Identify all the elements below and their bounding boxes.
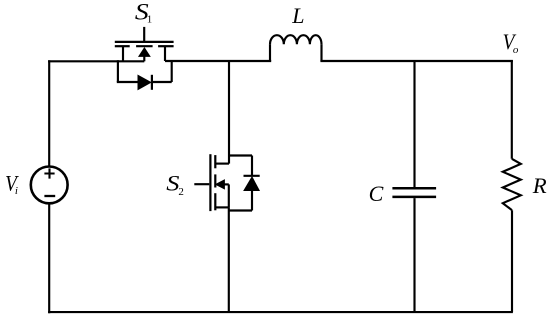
mosfet S2 body-to-source vertical [228, 184, 230, 207]
S1 body diode: right vertical up to drain wire [171, 60, 173, 82]
svg-text:o: o [513, 44, 519, 56]
voltage source Vi circle [31, 167, 68, 204]
wire: left rail upper (Vi top lead) [48, 60, 50, 167]
wire: S2 drain vertical from switch node [228, 60, 230, 163]
voltage source minus sign [44, 195, 55, 197]
mosfet S1 gate lead [143, 27, 145, 42]
wire: bottom ground rail [48, 311, 513, 313]
wire: capacitor C top vertical from output wire [413, 61, 415, 187]
voltage source plus sign [44, 168, 54, 178]
svg-text:C: C [369, 181, 384, 206]
wire: left rail lower (Vi bottom lead to ground rail) [48, 203, 50, 313]
mosfet S2 body arrow tail [224, 183, 229, 185]
mosfet S1 left contact vertical lead [122, 46, 124, 61]
mosfet S2 top (drain) contact wire [215, 163, 229, 165]
wire: right rail lower (resistor R to ground rail) [511, 210, 513, 312]
wire: S2 source vertical down to ground rail [228, 207, 230, 312]
S2 body diode: top horizontal from drain vertical [229, 154, 252, 156]
mosfet S1 body arrow (points up to middle contact) [139, 48, 150, 57]
inductor L left vertical riser [269, 44, 271, 61]
wire: S1 drain to switch node (top wire to inductor) [165, 60, 271, 62]
S1 body diode: cathode bar [151, 75, 153, 90]
mosfet S1 body arrow tail [143, 56, 145, 62]
mosfet S2 gate lead from S2 label [194, 183, 209, 185]
mosfet S1 contact bar: drain segment (left) [115, 45, 130, 47]
resistor R zigzag [503, 159, 521, 210]
S2 body diode: cathode vertical upper segment [251, 156, 253, 176]
inductor L humps (4 arcs) [270, 35, 322, 44]
inductor L right vertical riser [320, 44, 322, 61]
S1 body diode: cathode horizontal wire [152, 81, 172, 83]
capacitor C bottom plate [392, 196, 436, 199]
mosfet S2 bottom (source) contact wire [215, 206, 229, 208]
mosfet S1 contact bar: source segment (right) [158, 45, 174, 47]
S2 body diode: anode vertical lower segment [251, 190, 253, 211]
S2 body diode: triangle (anode, points up) [244, 177, 259, 191]
mosfet S1 gate bar [115, 41, 174, 43]
wire: inductor to output node (top wire right section) [320, 60, 513, 62]
mosfet S1 contact bar: body segment (middle) [136, 45, 153, 47]
wire: right rail upper (output node down to resistor R) [511, 60, 513, 159]
S1 body diode: triangle (anode, points right) [138, 75, 151, 89]
mosfet S1 right contact vertical lead [164, 46, 166, 61]
svg-text:i: i [15, 185, 18, 197]
S1 body diode: anode horizontal wire [117, 81, 138, 83]
wire: capacitor C bottom vertical to ground rail [413, 198, 415, 312]
mosfet S2 contact bar: drain segment (top) [214, 155, 216, 168]
svg-text:R: R [532, 174, 547, 199]
svg-text:2: 2 [178, 186, 184, 198]
svg-text:1: 1 [147, 14, 153, 26]
mosfet S2 body arrow (points left to middle contact) [216, 180, 225, 189]
S1 body diode: left vertical from source wire [117, 60, 119, 82]
mosfet S2 gate bar (vertical) [209, 154, 211, 211]
capacitor C top plate [392, 187, 436, 190]
S2 body diode: bottom horizontal to source vertical [229, 209, 252, 211]
mosfet S2 contact bar: body segment (middle) [214, 174, 216, 187]
S2 body diode: cathode bar [244, 175, 260, 177]
mosfet S2 contact bar: source segment (bottom) [214, 193, 216, 210]
wire: top-left horizontal from Vi positive terminal to S1 source [48, 60, 144, 62]
svg-text:L: L [291, 3, 304, 28]
